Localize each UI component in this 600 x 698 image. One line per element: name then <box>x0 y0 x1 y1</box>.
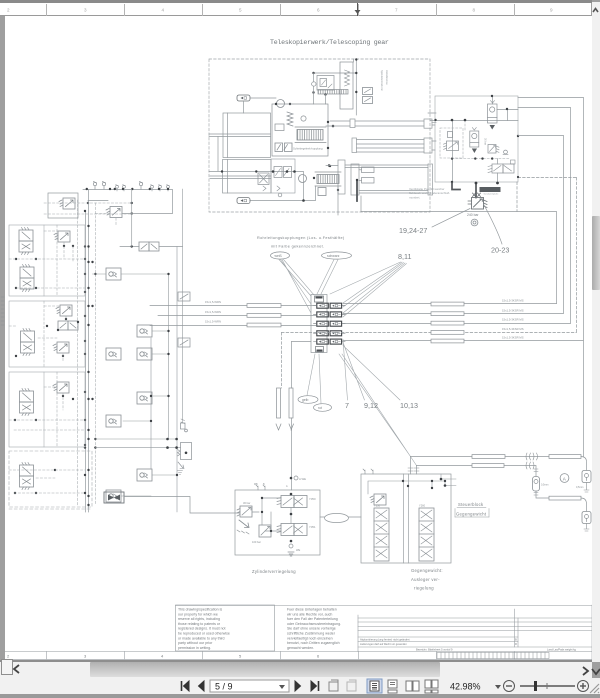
svg-text:0,5mm: 0,5mm <box>576 486 583 489</box>
coupling row 4 <box>317 331 329 336</box>
check valve C4 <box>137 392 152 404</box>
connector bottom element <box>316 347 324 353</box>
lower rod lines <box>345 164 433 195</box>
mid column wires <box>93 274 178 496</box>
elbow B down <box>581 498 587 511</box>
connector manifold housing <box>311 295 327 353</box>
hose couplings line B <box>526 462 534 469</box>
svg-text:oder Gebrauchsmustereintragung: oder Gebrauchsmustereintragung. <box>287 622 341 626</box>
elbow A down <box>581 457 587 471</box>
reducing valve S2b <box>53 342 69 353</box>
line L2 to port <box>343 136 564 314</box>
accumulator unit <box>470 128 479 148</box>
telescoping gear dashed enclosure <box>209 59 430 212</box>
bold feed elbow <box>452 183 460 190</box>
valve B2 <box>21 329 35 356</box>
svg-text:8,11: 8,11 <box>398 252 411 261</box>
svg-text:B: B <box>263 483 265 486</box>
box rails <box>430 110 518 121</box>
svg-text:Rohrleitungskupplungen (Los- u: Rohrleitungskupplungen (Los- u.Festhälft… <box>257 236 345 240</box>
svg-text:This drawing/specification is: This drawing/specification is <box>178 608 222 612</box>
S1 dashed wires <box>9 225 85 296</box>
coupling row 1 <box>317 303 329 308</box>
S2 dots <box>15 318 79 357</box>
pilot choke <box>448 132 453 138</box>
pipe B1 <box>472 464 504 468</box>
riser solid main <box>291 342 293 491</box>
svg-text:15x1,5-3KSR MS: 15x1,5-3KSR MS <box>502 327 524 331</box>
pipe A2 <box>549 455 581 459</box>
coupling row 5 <box>317 339 329 344</box>
svg-text:Y350: Y350 <box>309 497 316 501</box>
svg-text:240 bar: 240 bar <box>467 213 479 217</box>
svg-text:Lieferungen darf auf Recht vor: Lieferungen darf auf Recht vor gesendet <box>360 642 407 646</box>
svg-text:Zylinderverriegelung: Zylinderverriegelung <box>252 569 296 574</box>
lock block dots <box>261 493 293 543</box>
solenoid valve Y350 <box>277 496 307 508</box>
svg-text:10,13: 10,13 <box>400 401 418 410</box>
relief valve <box>444 141 459 151</box>
fan wires to gelb rot <box>307 354 321 404</box>
node dots rails <box>434 95 519 183</box>
bold lock wire <box>356 180 358 201</box>
check valve C7 <box>106 490 121 502</box>
sheet column labels <box>7 653 320 658</box>
svg-text:30 bar: 30 bar <box>243 501 250 505</box>
node dots lower <box>221 165 339 202</box>
svg-text:Ausleger ver-: Ausleger ver- <box>411 577 440 582</box>
wire coupling to lock block <box>124 497 240 514</box>
fan wires to schwarz <box>317 260 338 295</box>
drain coupling <box>104 492 124 503</box>
check valve C2 <box>137 325 152 337</box>
svg-text:Y351: Y351 <box>309 525 316 529</box>
S1 dots <box>15 245 74 289</box>
big frame vline left <box>360 196 362 212</box>
filter valve <box>106 207 122 218</box>
svg-text:Schiebegelenk-kupplung: Schiebegelenk-kupplung <box>293 147 323 151</box>
hose ellipse <box>325 513 349 522</box>
gauge port B <box>471 219 478 226</box>
labels right pipes <box>502 299 524 340</box>
wire top feed <box>354 59 357 115</box>
svg-text:Spindelantrieb mit: Spindelantrieb mit <box>380 70 384 91</box>
svg-text:party without our prior: party without our prior <box>178 641 213 645</box>
svg-text:100 bar: 100 bar <box>252 540 261 544</box>
drain valves under block <box>275 143 292 152</box>
wire manifold row <box>209 172 316 201</box>
gauge circle lower <box>299 175 307 183</box>
page field <box>210 680 289 692</box>
svg-text:15x1,5-3KSR MS: 15x1,5-3KSR MS <box>502 336 524 340</box>
bottom drain <box>289 544 293 548</box>
node dots rods <box>328 125 358 182</box>
pump filter triangle <box>490 125 496 130</box>
shuttle pilot valve <box>181 419 188 432</box>
check valve C6 <box>137 469 152 481</box>
minus circle <box>504 681 515 692</box>
mid feed rows <box>95 439 180 448</box>
section box S2 <box>9 301 85 367</box>
fan wires down right <box>339 340 417 466</box>
valve B1a <box>19 228 33 255</box>
svg-text:9,12: 9,12 <box>364 401 378 410</box>
small valve under rack <box>318 188 326 196</box>
svg-text:19,24-27: 19,24-27 <box>399 226 427 235</box>
svg-text:15x1,5-WRN: 15x1,5-WRN <box>205 310 221 314</box>
feed lines left with labels <box>150 306 316 326</box>
aux valve top <box>178 292 190 301</box>
plate hatches <box>473 193 481 197</box>
upper rod section 1 <box>350 119 436 128</box>
S2 dashed wires <box>9 301 66 367</box>
lock block wires <box>252 498 291 531</box>
shuttle block <box>178 443 192 460</box>
reducing valve S3 <box>53 382 69 393</box>
svg-text:42.98%: 42.98% <box>450 682 481 692</box>
pipe B2 <box>549 496 581 500</box>
riser pipe left <box>277 388 281 418</box>
reducing valve <box>488 145 499 154</box>
leader to 19,24-27 <box>432 209 470 228</box>
valve B1b <box>20 265 34 292</box>
first page <box>182 681 205 691</box>
check 100bar valve <box>259 525 271 537</box>
svg-text:mit Farbe gekennzeichnet.: mit Farbe gekennzeichnet. <box>271 245 325 249</box>
svg-text:20-23: 20-23 <box>491 246 509 255</box>
cwt top rail <box>368 474 456 494</box>
dashed return line right <box>517 178 577 333</box>
svg-text:2: 2 <box>7 653 10 658</box>
svg-text:registered designs. It must no: registered designs. It must not <box>178 627 226 631</box>
coupling row 2 <box>317 312 329 317</box>
line L3 to port <box>343 108 571 324</box>
valve B4 <box>20 463 34 490</box>
lock block frame <box>235 490 320 555</box>
cwt pilot valve <box>370 494 386 505</box>
tag rot <box>314 404 332 412</box>
svg-text:vervielfaeltigt noch einzelnen: vervielfaeltigt noch einzelnen <box>287 636 333 640</box>
svg-text:or made available to any third: or made available to any third <box>178 636 225 640</box>
gear rack symbol <box>297 130 323 141</box>
pipe symbols right <box>431 302 464 343</box>
tag weiss <box>271 252 290 259</box>
node dots brake <box>312 72 357 96</box>
ruler band <box>0 3 591 16</box>
svg-text:A: A <box>563 476 567 481</box>
svg-text:A WE: A WE <box>299 477 306 481</box>
svg-text:Gegengewicht: Gegengewicht <box>456 512 487 517</box>
svg-text:permission in writing.: permission in writing. <box>178 646 211 650</box>
S4 dots <box>14 469 56 494</box>
svg-text:4: 4 <box>161 653 164 658</box>
solenoid valve Y351 <box>277 524 307 536</box>
toolbar <box>0 678 600 694</box>
svg-text:montiert.: montiert. <box>409 195 420 199</box>
fan wires to weiss <box>279 260 314 314</box>
svg-text:WE: WE <box>296 548 300 552</box>
upper rod section 2 <box>352 138 436 153</box>
coupling K2 <box>237 198 250 204</box>
lower telescopic cylinder <box>210 160 271 194</box>
sandwich plate <box>480 188 500 192</box>
wire brake to cylinder <box>314 73 326 104</box>
reducing valve S1 <box>54 231 70 242</box>
sequence valve 240bar <box>468 198 487 210</box>
line L1 to port <box>343 303 557 305</box>
svg-text:Sie darf ohne unsere vorherige: Sie darf ohne unsere vorherige <box>287 627 336 631</box>
svg-text:30 bar: 30 bar <box>484 138 487 145</box>
big frame top <box>361 211 556 213</box>
svg-text:Gegengewicht:: Gegengewicht: <box>411 568 443 573</box>
supply valve <box>59 198 75 209</box>
brake hatched coupling <box>318 90 348 95</box>
svg-text:our property for which we: our property for which we <box>178 612 218 616</box>
riser dashed left <box>281 333 283 389</box>
svg-text:15x1,5-3KSR MS: 15x1,5-3KSR MS <box>502 299 524 303</box>
lock pilot boxes <box>359 167 374 183</box>
wires filter <box>95 214 116 227</box>
solenoid wires <box>497 159 499 183</box>
aux valve mid <box>178 338 190 347</box>
legal text DE <box>287 608 341 650</box>
upper cylinder valve block <box>272 104 328 156</box>
counterbalance control box U20 <box>435 96 518 182</box>
resize grip <box>588 682 600 694</box>
svg-text:benutzt, noch Dritten zugaengl: benutzt, noch Dritten zugaenglich <box>287 641 340 645</box>
wires rods to control block <box>326 113 436 166</box>
top window edge <box>0 0 592 3</box>
check valve C1 <box>106 268 121 280</box>
cwt top ports <box>363 469 373 474</box>
test points row <box>93 182 96 190</box>
svg-text:Bezeichn. Blatt/sheet 5 von/of: Bezeichn. Blatt/sheet 5 von/of 9 <box>416 647 453 651</box>
brake gauge circle <box>312 82 316 86</box>
riser pipe main <box>289 388 293 418</box>
line L4 dashed <box>282 332 577 334</box>
brake valve U-top <box>317 76 334 91</box>
svg-text:Abplombierung (ung fernier) ni: Abplombierung (ung fernier) nicht geände… <box>360 637 410 641</box>
lower lock cylinder A <box>338 160 345 194</box>
mid column risers <box>151 189 183 512</box>
pilot valve V1 <box>139 242 159 251</box>
svg-text:15x1,5-3KSR MS: 15x1,5-3KSR MS <box>502 318 524 322</box>
title block texts <box>360 637 577 651</box>
counterweight box <box>361 474 451 563</box>
svg-text:Fuer diese Unterlagen behalten: Fuer diese Unterlagen behalten <box>287 608 337 612</box>
svg-text:5 / 9: 5 / 9 <box>215 682 233 692</box>
pipe A1 <box>472 455 505 459</box>
ruler numbers/ticks as svg <box>0 0 600 24</box>
wire K1 to valve <box>244 98 277 113</box>
svg-text:Y260: Y260 <box>419 504 426 508</box>
fan wires to 8,11 <box>330 262 407 317</box>
pilot pump unit <box>488 101 498 124</box>
cwt stack B <box>419 508 434 561</box>
section box S4 dashed <box>9 451 92 507</box>
svg-text:Teleskopierwerk/Telescoping ge: Teleskopierwerk/Telescoping gear <box>270 39 389 46</box>
svg-text:Sandwichplatte: Sandwichplatte <box>484 193 500 196</box>
check ball <box>503 150 508 154</box>
gauge A circle <box>560 474 569 483</box>
drain arrow <box>239 520 249 528</box>
restrictor RA <box>582 471 591 483</box>
valve B3 <box>20 389 34 416</box>
plus circle <box>578 681 589 692</box>
hose couplings line A <box>526 453 538 460</box>
cursor marker <box>357 3 359 21</box>
flow arrows <box>276 424 294 430</box>
svg-text:fuer den Fall der Patenterteil: fuer den Fall der Patenterteilung <box>287 617 338 621</box>
bold feed riser <box>475 183 477 198</box>
coupling stubs <box>314 306 346 342</box>
wire brake cross <box>314 72 357 74</box>
bus node dots <box>84 188 169 506</box>
svg-text:gemacht werden.: gemacht werden. <box>287 646 314 650</box>
svg-text:Steuerblock: Steuerblock <box>458 502 484 507</box>
svg-text:R: R <box>515 642 517 646</box>
main bus lines <box>86 190 89 513</box>
lower rack assembly <box>317 175 339 184</box>
section box S3 <box>9 372 85 447</box>
upper telescopic cylinder <box>209 113 271 171</box>
supply line B <box>417 466 550 499</box>
node dots valve block <box>275 103 329 149</box>
svg-text:MB: MB <box>254 483 258 486</box>
pipe symbols left <box>247 304 281 327</box>
connector top element <box>315 296 324 302</box>
riser port A <box>294 476 298 480</box>
svg-text:reserve all rights, including: reserve all rights, including <box>178 617 220 621</box>
check valve C3 <box>137 348 152 360</box>
line L5 <box>343 98 584 457</box>
cwt inner risers <box>404 474 409 563</box>
S3 dashed wires <box>9 372 85 447</box>
top port ticks <box>256 485 265 490</box>
svg-text:be reproduced or used otherwis: be reproduced or used otherwise <box>178 632 230 636</box>
pilot valves right of spindle <box>363 88 373 104</box>
left manifold top rail <box>83 190 173 214</box>
cwt dots <box>402 478 447 489</box>
tag schwarz <box>322 252 352 259</box>
tag gelb <box>298 396 318 404</box>
prev/next view icons <box>329 680 356 691</box>
left edge ticks <box>1 297 4 325</box>
S3 dots <box>14 395 74 421</box>
wire block to cwt box <box>320 516 361 518</box>
svg-text:A: A <box>286 485 288 488</box>
svg-text:schriftliche Zustimmung weder: schriftliche Zustimmung weder <box>287 632 336 636</box>
S4 dashed wires <box>9 470 85 493</box>
svg-text:3: 3 <box>84 653 87 658</box>
supply box <box>48 193 78 218</box>
title block grid <box>5 605 592 660</box>
svg-text:6: 6 <box>317 653 320 658</box>
spindle drive housing <box>340 62 353 109</box>
svg-text:15x1,5-WRN: 15x1,5-WRN <box>205 320 221 324</box>
svg-text:Haltebremse: Haltebremse <box>385 70 389 85</box>
svg-text:15x1,5-3KSR MS: 15x1,5-3KSR MS <box>502 308 524 312</box>
horizontal scrollbar area <box>0 660 592 679</box>
layout icons <box>367 679 382 693</box>
leader to 20-23 <box>484 204 503 244</box>
svg-text:0,5mm: 0,5mm <box>541 484 548 487</box>
solenoid valve Y <box>488 160 515 173</box>
svg-text:those relating to patents or: those relating to patents or <box>178 622 221 626</box>
svg-text:wir uns alle Rechte vor, auch: wir uns alle Rechte vor, auch <box>287 612 332 616</box>
rail node dots <box>86 188 161 190</box>
relief subbox dashed <box>440 128 463 158</box>
gauge circle <box>277 100 285 108</box>
scale ruler strip <box>437 653 549 659</box>
svg-text:schwarz: schwarz <box>327 254 340 258</box>
mid dots <box>150 273 178 476</box>
check valve C1b <box>106 348 121 360</box>
dashed rows top <box>44 203 131 214</box>
coupling K1 <box>237 95 250 101</box>
slider <box>520 685 575 687</box>
supply line A to cwt <box>411 456 582 458</box>
shuttle drain <box>178 462 185 475</box>
svg-text:gelb: gelb <box>302 398 309 402</box>
check valve C5 <box>106 415 121 427</box>
svg-text:weiß: weiß <box>275 254 282 258</box>
svg-text:Y250: Y250 <box>374 504 381 508</box>
big frame right <box>556 212 558 304</box>
lower cylinder valve cluster <box>258 159 295 197</box>
coupling row 3 <box>317 321 329 326</box>
left block bottom edge <box>9 508 92 510</box>
svg-text:riegelung: riegelung <box>414 586 434 591</box>
feed stubs from lines <box>411 457 417 475</box>
svg-text:Land Las/Pads weight kg: Land Las/Pads weight kg <box>547 647 577 651</box>
legal text box EN <box>176 605 275 651</box>
svg-text:rot: rot <box>318 406 322 410</box>
svg-text:7: 7 <box>345 401 349 410</box>
lower lock cylinder B <box>351 164 359 195</box>
svg-text:5: 5 <box>239 653 242 658</box>
orifice capsule line B <box>533 469 540 495</box>
pilot valve S2 <box>58 321 78 330</box>
reducing valve S2a <box>56 305 72 316</box>
restrictor RB <box>582 512 591 524</box>
vertical scrollbar <box>592 2 600 662</box>
section box S1 <box>9 225 85 296</box>
svg-text:15x1,5-WRN: 15x1,5-WRN <box>205 300 221 304</box>
svg-text:B: B <box>515 637 517 641</box>
cwt stack A <box>374 508 389 561</box>
